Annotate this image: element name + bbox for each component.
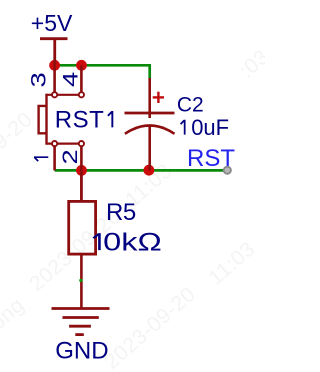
label 10kOhm: [93, 229, 161, 257]
ground symbol: [52, 309, 110, 335]
wire RST net (bottom horizontal): [55, 169, 228, 172]
pin circle 2: [79, 141, 84, 146]
pushbutton RST1: [39, 65, 82, 200]
pin 1 wire: [53, 146, 56, 170]
pin number 1: [34, 157, 48, 161]
C2 top plate: [125, 112, 175, 115]
R5 bottom pin: [80, 254, 83, 308]
R5 top pin: [80, 170, 83, 201]
actuator bracket: [39, 106, 47, 133]
pin 3 wire: [53, 65, 56, 92]
junction dot (pin4 / +5V): [76, 60, 87, 71]
pin 4 wire: [80, 65, 83, 92]
svg-text:GND: GND: [55, 338, 108, 365]
C2 polarity plus: [153, 92, 164, 103]
bottom contact bar: [47, 143, 82, 145]
C2 bottom plate arc: [125, 126, 175, 134]
junction dot (C2 / RST net): [144, 165, 155, 176]
movable contact line: [45, 94, 47, 145]
pin circle 1: [52, 141, 57, 146]
wire stub at R5/GND junction: [79, 279, 82, 282]
pin circle 4: [79, 92, 84, 97]
wire +5V net (down to C2): [148, 64, 151, 79]
svg-text:R5: R5: [106, 199, 136, 226]
wire +5V net (top horizontal): [55, 64, 151, 67]
svg-text:3: 3: [27, 72, 50, 87]
C2 top pin: [148, 78, 151, 118]
resistor R5: [69, 170, 96, 308]
R5 body: [69, 201, 96, 254]
svg-text:C2: C2: [177, 94, 204, 117]
junction dot (pin3 / +5V): [49, 60, 60, 71]
net port terminal: [224, 167, 231, 174]
svg-text:4: 4: [59, 72, 82, 87]
C2 bottom pin: [148, 126, 151, 170]
svg-text:RST: RST: [55, 107, 105, 134]
svg-text:0kΩ: 0kΩ: [103, 229, 162, 257]
svg-text:0uF: 0uF: [191, 115, 229, 140]
top contact bar: [47, 94, 82, 96]
label 10uF: [181, 120, 185, 135]
pin 2 wire: [80, 146, 83, 200]
capacitor C2: [125, 78, 175, 170]
svg-text:2: 2: [59, 149, 82, 164]
pin circle 3: [52, 92, 57, 97]
svg-text:+5V: +5V: [31, 10, 73, 36]
junction dot (pin2 / RST net): [76, 165, 87, 176]
power symbol +5V: [40, 39, 68, 66]
